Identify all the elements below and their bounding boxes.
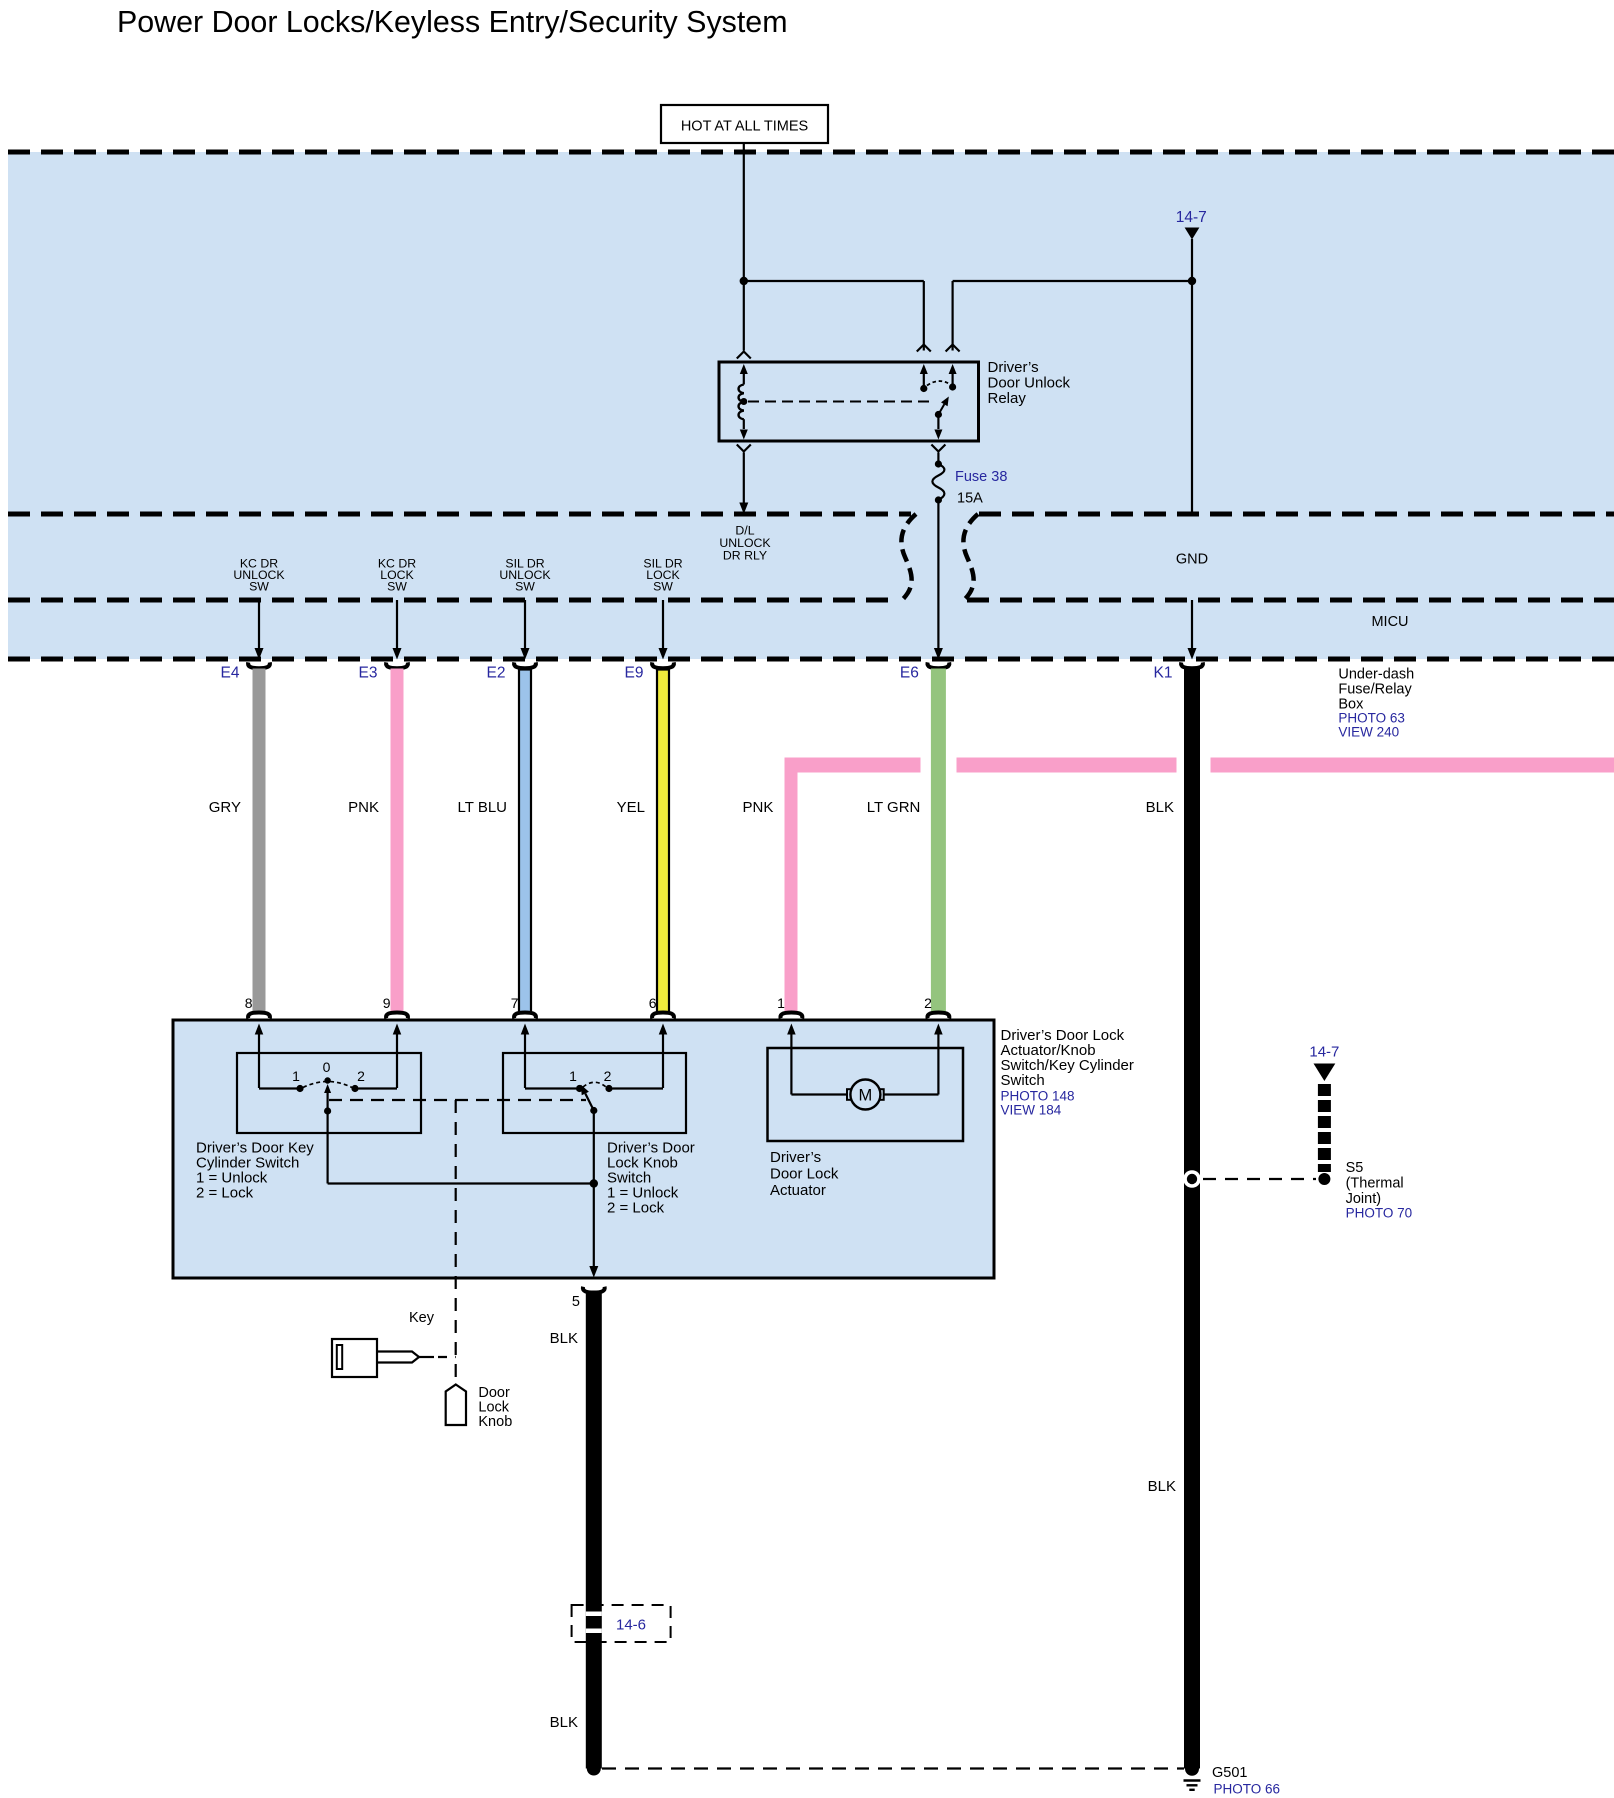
- S1 wiring pin9 leg: [359, 1087, 398, 1089]
- svg-text:VIEW 184: VIEW 184: [1001, 1103, 1062, 1118]
- actuator wiring pin1 leg: [791, 1093, 848, 1095]
- dashed control link from coil to contact arm: [748, 401, 934, 403]
- wire W4 YEL: E9 to knob switch pin 6: [657, 670, 669, 1014]
- svg-text:GND: GND: [1176, 552, 1208, 568]
- pin 6 connector cup: [652, 1013, 674, 1019]
- svg-text:Relay: Relay: [988, 390, 1027, 407]
- motor brushes: [847, 1089, 854, 1100]
- connector E2: [514, 662, 536, 668]
- wire: MICU KC DR LOCK SW output to connector: [396, 600, 398, 649]
- wire end node at G501 (left): [587, 1762, 601, 1776]
- S1 wiring pin8 leg: [259, 1087, 298, 1089]
- svg-text:G501: G501: [1212, 1765, 1247, 1781]
- wire: branch from 14-7 feed to relay contact: [953, 280, 1192, 282]
- svg-text:14-6: 14-6: [616, 1617, 646, 1634]
- wire W1 GRY: E4 to key cylinder switch pin 8: [253, 669, 266, 1014]
- ground symbol G501: [1184, 1779, 1201, 1781]
- actuator M1: Driver's Door Lock Actuator box: [768, 1048, 964, 1141]
- svg-text:2 = Lock: 2 = Lock: [607, 1200, 665, 1217]
- svg-text:E3: E3: [359, 665, 378, 682]
- under-dash fuse/relay box + MICU unit shaded region: [8, 152, 1614, 659]
- S1 throw arc dashed: [303, 1082, 352, 1088]
- svg-text:MICU: MICU: [1371, 614, 1408, 630]
- unit boundary dashed line top: [8, 150, 1614, 155]
- svg-text:14-7: 14-7: [1309, 1044, 1339, 1061]
- wire: relay common to Fuse 38: [937, 453, 939, 465]
- connector E3: [386, 662, 408, 668]
- svg-text:Actuator: Actuator: [770, 1182, 826, 1199]
- pin 7 connector cup: [514, 1013, 536, 1019]
- key symbol: [332, 1339, 377, 1377]
- relay pin arrows into box top: [740, 364, 748, 374]
- S2 throw arc dashed: [583, 1082, 606, 1087]
- relay contact: dashed throw arc: [927, 381, 950, 385]
- relay pin connector chevrons above box: [737, 352, 751, 359]
- wire W8 BLK: pin 5 to ground G501: [586, 1292, 602, 1769]
- svg-text:YEL: YEL: [617, 799, 645, 816]
- wire: fuse to connector E6 through band cut: [937, 500, 939, 649]
- pin 9 connector cup: [386, 1013, 408, 1019]
- node: fuse top: [935, 460, 942, 467]
- key mechanical dashes: [419, 1356, 434, 1358]
- svg-text:Fuse 38: Fuse 38: [955, 469, 1007, 485]
- S2 wiring pin6 leg: [613, 1087, 664, 1089]
- mechanical link dashed: down to key/knob: [455, 1100, 457, 1382]
- connector E4: [248, 662, 270, 668]
- svg-text:SW: SW: [653, 580, 673, 594]
- svg-text:1: 1: [777, 995, 785, 1011]
- svg-text:PHOTO 148: PHOTO 148: [1001, 1089, 1075, 1104]
- svg-text:LT GRN: LT GRN: [867, 799, 921, 816]
- node: junction on 14-7 feed: [1188, 277, 1196, 285]
- band cut mark right of Fuse 38 wire: [963, 514, 978, 601]
- svg-text:0: 0: [323, 1059, 331, 1075]
- svg-text:1: 1: [569, 1068, 577, 1084]
- S1 contact 2: [351, 1085, 358, 1092]
- band cut mark left of Fuse 38 wire: [901, 514, 916, 601]
- S2 wiring pin7 leg: [525, 1087, 576, 1089]
- wire W3 LT BLU: E2 to knob switch pin 7: [519, 670, 531, 1014]
- svg-text:Door Lock: Door Lock: [770, 1166, 839, 1183]
- svg-text:2: 2: [604, 1068, 612, 1084]
- svg-text:PNK: PNK: [743, 799, 774, 816]
- wire W2 PNK: E3 to key cylinder switch pin 9: [391, 669, 404, 1014]
- pin 1 connector cup: [780, 1013, 802, 1019]
- svg-text:15A: 15A: [957, 491, 983, 507]
- node S5 (Thermal Joint): [1318, 1173, 1330, 1185]
- svg-text:7: 7: [511, 995, 519, 1011]
- svg-text:GRY: GRY: [209, 799, 241, 816]
- svg-text:Driver’s: Driver’s: [988, 359, 1039, 376]
- svg-text:6: 6: [649, 995, 657, 1011]
- svg-text:SW: SW: [515, 580, 535, 594]
- wire: MICU GND pin to connector K1: [1191, 600, 1193, 649]
- switch S2: Driver's Door Lock Knob Switch box: [503, 1053, 686, 1133]
- wire: MICU SIL DR UNLOCK SW output to connector: [524, 600, 526, 649]
- connector K1: [1181, 662, 1203, 668]
- S2 movable arm: [585, 1094, 594, 1111]
- relay pin connector chevrons below box: [737, 445, 751, 452]
- S1 neutral contact: [324, 1077, 330, 1083]
- S1 movable arm (points to 0): [327, 1092, 329, 1111]
- svg-text:5: 5: [572, 1294, 580, 1310]
- wire: 14-7 feed down to GND pin of MICU: [1191, 239, 1193, 514]
- svg-text:Fuse/Relay: Fuse/Relay: [1338, 682, 1412, 698]
- wire W5 PNK: actuator pin 1, up and off page right: [785, 758, 798, 1014]
- svg-text:SW: SW: [249, 580, 269, 594]
- relay contact: stationary contacts: [920, 385, 927, 392]
- node: fuse bottom: [935, 496, 942, 503]
- svg-text:8: 8: [245, 995, 253, 1011]
- relay contact: movable arm: [935, 411, 942, 418]
- fuse F38 element: [932, 464, 944, 500]
- svg-text:(Thermal: (Thermal: [1346, 1176, 1404, 1192]
- motor M symbol: [850, 1080, 880, 1110]
- svg-text:Under-dash: Under-dash: [1338, 667, 1414, 683]
- svg-text:1: 1: [292, 1068, 300, 1084]
- unit boundary dashed line 3 (MICU): [8, 598, 897, 603]
- mechanical link dashed: key cylinder to knob switch: [329, 1099, 586, 1101]
- svg-text:LT BLU: LT BLU: [458, 799, 507, 816]
- svg-text:BLK: BLK: [1148, 1478, 1176, 1495]
- wire: S1 arm to common rail: [327, 1111, 329, 1184]
- door lock knob symbol: [446, 1385, 466, 1426]
- svg-text:K1: K1: [1154, 665, 1173, 682]
- svg-text:2: 2: [357, 1068, 365, 1084]
- pin 2 connector cup: [927, 1013, 949, 1019]
- junction on K1 ground wire: [1183, 1170, 1201, 1188]
- HOT AT ALL TIMES box: [661, 105, 828, 143]
- svg-text:Door Unlock: Door Unlock: [988, 375, 1071, 392]
- wire: S2 arm down to pin 5: [593, 1111, 595, 1267]
- svg-text:Knob: Knob: [478, 1414, 512, 1430]
- svg-text:PHOTO 70: PHOTO 70: [1346, 1206, 1413, 1221]
- unit box: Driver's Door Lock Actuator/Knob Switch/Key Cylinder Switch: [173, 1020, 994, 1278]
- connector reference 14-6 dashed box: [572, 1605, 671, 1642]
- svg-text:E2: E2: [487, 665, 506, 682]
- S2 contact 2: [605, 1085, 612, 1092]
- svg-text:Switch: Switch: [1001, 1072, 1045, 1089]
- svg-text:PHOTO 66: PHOTO 66: [1214, 1782, 1281, 1797]
- S2 arm base node: [590, 1107, 597, 1114]
- switch S1: Driver's Door Key Cylinder Switch box: [237, 1053, 421, 1133]
- dashed ground link to G501: [602, 1767, 1184, 1769]
- relay coil: [739, 385, 744, 420]
- wire end node at G501 (right): [1185, 1762, 1199, 1776]
- connector E9: [652, 662, 674, 668]
- svg-text:S5: S5: [1346, 1160, 1364, 1176]
- unit boundary dashed line 2 (fuse box / MICU internal): [8, 512, 911, 517]
- svg-text:PNK: PNK: [348, 799, 379, 816]
- connector E6: [927, 662, 949, 668]
- svg-text:BLK: BLK: [550, 1714, 578, 1731]
- relay coil bottom pin arrow: [743, 419, 745, 429]
- in-line connector gaps (14-6): [586, 1612, 602, 1617]
- pin 8 connector cup: [248, 1013, 270, 1019]
- thermal joint segmented wire: [1318, 1084, 1331, 1096]
- actuator wiring pin2 leg: [884, 1093, 939, 1095]
- wire: MICU SIL DR LOCK SW output to connector: [662, 600, 664, 649]
- S1 arm base node: [324, 1107, 331, 1114]
- unit boundary dashed line bottom: [8, 657, 1614, 662]
- node: common rail junction: [590, 1179, 598, 1187]
- S2 contact 1: [576, 1085, 583, 1092]
- svg-text:2 = Lock: 2 = Lock: [196, 1185, 254, 1202]
- dashed link from K1 ground wire to S5: [1203, 1178, 1316, 1180]
- wire: HOT AT ALL TIMES feed down to relay coil: [743, 143, 745, 351]
- svg-text:2: 2: [924, 995, 932, 1011]
- node: coil tap for control link: [740, 398, 747, 405]
- pin 5 connector cup: [583, 1287, 605, 1293]
- svg-text:E9: E9: [625, 665, 644, 682]
- svg-text:Key: Key: [409, 1310, 435, 1326]
- svg-text:BLK: BLK: [550, 1330, 578, 1347]
- relay U1: Driver's Door Unlock Relay box: [719, 362, 979, 441]
- svg-text:DR RLY: DR RLY: [723, 549, 767, 563]
- svg-text:E4: E4: [221, 665, 240, 682]
- wire: MICU KC DR UNLOCK SW output to connector: [258, 600, 260, 649]
- wire W6 LT GRN: E6 to actuator pin 2: [931, 669, 946, 1014]
- svg-text:BLK: BLK: [1146, 799, 1174, 816]
- svg-text:E6: E6: [900, 665, 919, 682]
- node: junction on hot feed: [740, 277, 748, 285]
- svg-text:9: 9: [383, 995, 391, 1011]
- svg-text:M: M: [859, 1087, 873, 1105]
- wire: branch from hot feed to relay contact pin: [744, 280, 924, 282]
- pin entry arrows into unit box: [255, 1024, 264, 1035]
- svg-text:Driver’s: Driver’s: [770, 1149, 821, 1166]
- svg-text:SW: SW: [387, 580, 407, 594]
- wire W7 BLK: K1 ground wire: [1184, 669, 1200, 1769]
- wire: relay coil pin to MICU D/L UNLOCK DR RLY: [743, 453, 745, 504]
- svg-text:HOT AT ALL TIMES: HOT AT ALL TIMES: [681, 119, 808, 135]
- S1 contact 1: [296, 1085, 303, 1092]
- svg-text:VIEW 240: VIEW 240: [1338, 725, 1399, 740]
- relay common contact bottom pin arrow: [937, 415, 939, 430]
- svg-text:PHOTO 63: PHOTO 63: [1338, 711, 1405, 726]
- svg-text:Power Door Locks/Keyless Entry: Power Door Locks/Keyless Entry/Security …: [117, 5, 788, 39]
- svg-text:14-7: 14-7: [1176, 209, 1207, 226]
